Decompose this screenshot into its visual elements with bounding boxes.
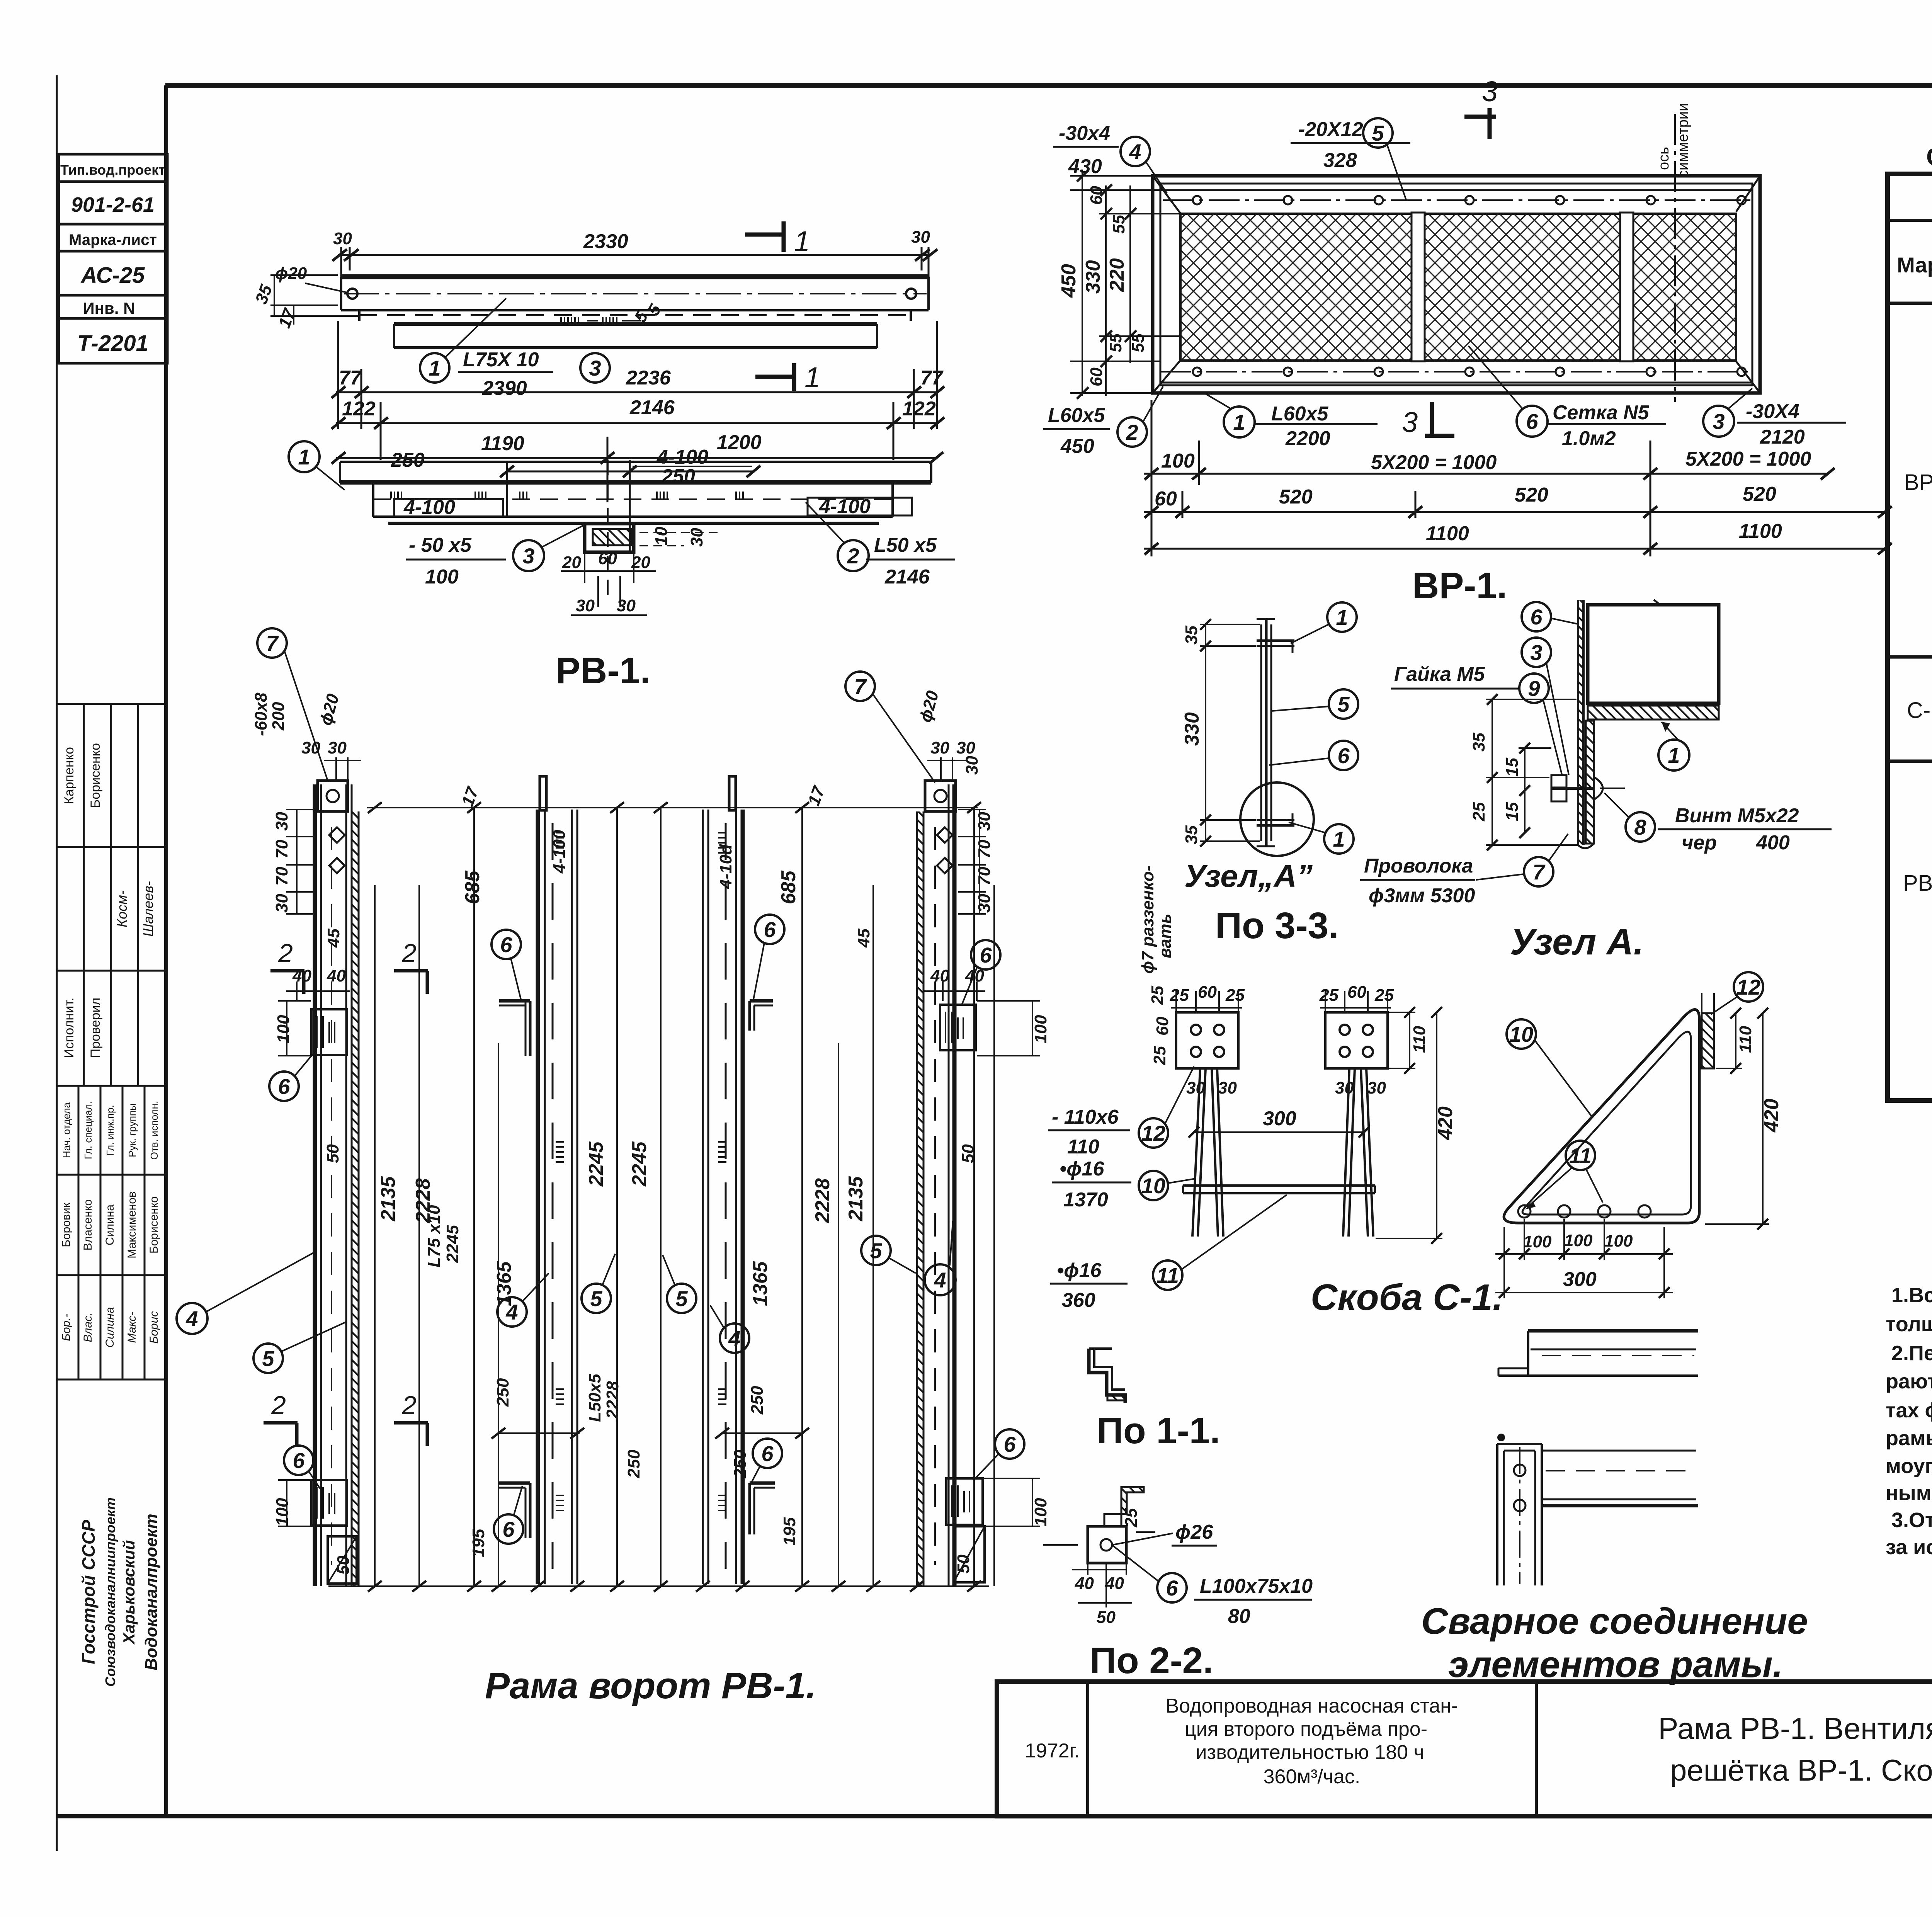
- svg-text:6: 6: [293, 1448, 305, 1473]
- section По 2-2 icon: [1088, 1487, 1144, 1563]
- svg-text:2: 2: [278, 939, 293, 968]
- svg-text:Косм-: Косм-: [114, 890, 130, 927]
- dim row 77 / 2236 / 77: [332, 321, 944, 429]
- ВР-1 dim row 60 / 520 520 520: [1144, 491, 1892, 518]
- svg-text:4: 4: [505, 1300, 518, 1324]
- svg-text:30: 30: [1186, 1078, 1205, 1097]
- M2 mid angle bracket: [499, 1001, 530, 1056]
- svg-text:6: 6: [278, 1074, 290, 1099]
- svg-text:Влас.: Влас.: [82, 1313, 94, 1342]
- svg-text:685: 685: [461, 870, 484, 904]
- svg-text:685: 685: [777, 870, 800, 904]
- svg-text:122: 122: [342, 398, 376, 420]
- svg-text:6: 6: [1530, 605, 1543, 629]
- svg-text:Борисенко: Борисенко: [148, 1196, 160, 1254]
- svg-text:1: 1: [804, 361, 820, 393]
- svg-text:ϕ20: ϕ20: [275, 264, 307, 283]
- svg-text:50: 50: [954, 1555, 973, 1573]
- svg-text:30: 30: [1218, 1078, 1237, 1097]
- svg-text:25: 25: [1170, 986, 1189, 1005]
- svg-text:100: 100: [1161, 450, 1195, 472]
- svg-text:520: 520: [1515, 484, 1548, 506]
- svg-text:420: 420: [1760, 1099, 1783, 1133]
- weld tick clusters lower band: [391, 492, 743, 498]
- member M3: [703, 776, 743, 1584]
- svg-text:Водоканалпроект: Водоканалпроект: [142, 1514, 161, 1670]
- svg-text:Власенко: Власенко: [82, 1199, 94, 1251]
- svg-text:20: 20: [562, 553, 581, 572]
- svg-text:Винт М5х22: Винт М5х22: [1675, 805, 1799, 827]
- svg-text:за исключением оговоренных: за исключением оговоренных особо.: [1886, 1536, 1932, 1559]
- svg-text:520: 520: [1279, 486, 1313, 508]
- svg-text:По 1-1.: По 1-1.: [1097, 1410, 1220, 1451]
- По 3-3 callouts 1,5,6,1: [1327, 602, 1357, 632]
- svg-text:2245: 2245: [443, 1225, 462, 1263]
- svg-text:ϕ7 раззенко-: ϕ7 раззенко-: [1138, 866, 1157, 974]
- 4-100 boxes: [394, 499, 503, 517]
- svg-text:5: 5: [590, 1286, 602, 1311]
- svg-text:30: 30: [687, 528, 706, 547]
- svg-text:1: 1: [429, 356, 440, 380]
- svg-text:25: 25: [1469, 802, 1488, 822]
- svg-text:вать: вать: [1156, 913, 1175, 958]
- svg-text:Силина: Силина: [104, 1204, 116, 1245]
- svg-text:-30x4: -30x4: [1059, 122, 1110, 145]
- svg-text:1190: 1190: [481, 432, 524, 455]
- svg-text:10: 10: [652, 527, 671, 546]
- svg-text:30: 30: [328, 738, 347, 757]
- svg-text:77: 77: [920, 367, 944, 389]
- weld tick rows on top band: [561, 317, 641, 325]
- svg-text:6: 6: [1003, 1432, 1016, 1456]
- ВР-1 dim row 100 / 5x200=1000: [1144, 400, 1835, 556]
- Скоба С-1 front view: right plate: [1325, 1012, 1388, 1068]
- member M4: [917, 784, 954, 1586]
- M4 mid weld plate: [940, 1005, 976, 1050]
- svg-text:30: 30: [576, 596, 595, 615]
- M4 bolt diamonds: [937, 827, 952, 843]
- svg-text:решётка ВР-1. Скоба С-1.: решётка ВР-1. Скоба С-1.: [1670, 1753, 1932, 1787]
- svg-text:2: 2: [1126, 420, 1138, 444]
- svg-text:-30X4: -30X4: [1746, 400, 1799, 423]
- svg-text:195: 195: [469, 1529, 488, 1557]
- svg-text:Проверил: Проверил: [88, 998, 103, 1058]
- svg-text:моугольности рамы, привар: моугольности рамы, приваривают друг к др…: [1886, 1454, 1932, 1478]
- svg-text:330: 330: [1181, 712, 1203, 746]
- svg-text:2: 2: [401, 939, 417, 968]
- svg-text:60: 60: [1153, 1017, 1172, 1036]
- svg-text:Тип.вод.проект: Тип.вод.проект: [60, 162, 165, 178]
- svg-text:-60x8: -60x8: [252, 692, 270, 736]
- callout 2: L50x5/2146: [838, 540, 869, 571]
- svg-text:Марка: Марка: [1897, 253, 1932, 277]
- svg-text:220: 220: [1106, 258, 1128, 292]
- svg-text:30: 30: [1335, 1078, 1354, 1097]
- M1 bottom plate: [311, 1480, 347, 1526]
- top rail with bolts: [1160, 190, 1752, 204]
- По 2-2 dims: [1043, 1532, 1173, 1607]
- svg-text:25: 25: [1122, 1508, 1141, 1527]
- small dim hardware lines top-left/top-right: [278, 757, 1040, 1526]
- M1 top plate -60x8: [318, 781, 348, 811]
- bottom rail with bolts: [1160, 367, 1752, 383]
- M4 bottom plate: [946, 1478, 983, 1525]
- svg-text:- 110x6: - 110x6: [1052, 1106, 1119, 1128]
- svg-text:L75X 10: L75X 10: [463, 349, 539, 371]
- svg-text:77: 77: [339, 367, 362, 389]
- member M2: [538, 776, 577, 1584]
- svg-text:122: 122: [902, 398, 936, 420]
- svg-text:Инв. N: Инв. N: [83, 299, 135, 317]
- svg-text:80: 80: [1228, 1605, 1250, 1628]
- svg-text:1365: 1365: [749, 1261, 772, 1306]
- svg-text:6: 6: [500, 932, 512, 957]
- svg-text:330: 330: [1082, 260, 1104, 294]
- table header texts: [1897, 189, 1932, 297]
- mid dim lines 250: [492, 1428, 809, 1439]
- stamp: middle signature block: [57, 704, 166, 1379]
- svg-text:Исполнит.: Исполнит.: [62, 998, 77, 1058]
- svg-text:4-100: 4-100: [403, 496, 455, 519]
- svg-text:70: 70: [272, 867, 291, 886]
- svg-text:450: 450: [1060, 435, 1094, 458]
- svg-text:1200: 1200: [717, 431, 762, 454]
- svg-text:5: 5: [675, 1286, 688, 1311]
- Скоба С-1 dims above plates 25 60 25: [1171, 991, 1391, 1012]
- svg-text:L100x75x10: L100x75x10: [1200, 1575, 1313, 1597]
- svg-text:70: 70: [272, 840, 291, 859]
- svg-text:3: 3: [522, 544, 534, 568]
- svg-text:250: 250: [624, 1449, 643, 1478]
- РВ-1 top beam band: [341, 277, 929, 321]
- Скоба С-1 front view: left plate: [1176, 1012, 1238, 1068]
- drawing РВ-1 plan: top dim line 2330: [332, 247, 937, 284]
- svg-text:3: 3: [1482, 75, 1498, 107]
- svg-text:Силина: Силина: [104, 1307, 116, 1347]
- mesh divider bars: [1412, 213, 1425, 361]
- svg-text:250: 250: [391, 449, 425, 471]
- РВ-1 inner channel (L75x10): [394, 324, 877, 348]
- svg-text:25: 25: [1150, 1046, 1169, 1065]
- svg-text:ϕ26: ϕ26: [1175, 1521, 1213, 1543]
- svg-text:1370: 1370: [1063, 1189, 1108, 1211]
- svg-text:6: 6: [502, 1517, 515, 1541]
- bottom dim line: [328, 1581, 989, 1592]
- svg-text:Борисенко: Борисенко: [88, 743, 103, 808]
- svg-text:35: 35: [1469, 733, 1488, 752]
- Рама ворот РВ-1: left member M1: [315, 784, 359, 1586]
- svg-text:9: 9: [1528, 676, 1540, 701]
- svg-text:L75 x10: L75 x10: [425, 1205, 444, 1267]
- svg-text:25: 25: [1148, 986, 1167, 1005]
- svg-text:2245: 2245: [585, 1141, 607, 1187]
- svg-text:2200: 2200: [1285, 427, 1330, 450]
- svg-text:40: 40: [1105, 1574, 1124, 1593]
- svg-text:ВР-1: ВР-1: [1904, 470, 1932, 495]
- svg-text:6: 6: [761, 1441, 774, 1466]
- Узел А: beam and frame corner: [1578, 600, 1719, 848]
- svg-text:2146: 2146: [629, 396, 675, 419]
- svg-text:АС-25: АС-25: [80, 263, 145, 288]
- svg-text:РВ-1: РВ-1: [1903, 871, 1932, 896]
- svg-text:1100: 1100: [1739, 520, 1782, 543]
- svg-text:200: 200: [269, 702, 288, 731]
- svg-text:Рук. группы: Рук. группы: [126, 1103, 138, 1157]
- M1 bolt diamonds: [329, 827, 345, 843]
- svg-text:4: 4: [728, 1326, 740, 1351]
- svg-text:15: 15: [1503, 758, 1522, 777]
- svg-text:тах ϕ18 мм, временно ра: тах ϕ18 мм, временно раскрепляют в нижне…: [1886, 1399, 1932, 1422]
- svg-text:40: 40: [327, 966, 346, 985]
- svg-text:520: 520: [1743, 483, 1776, 505]
- svg-text:100: 100: [1031, 1498, 1050, 1526]
- svg-text:60: 60: [1347, 983, 1366, 1002]
- svg-text:1972г.: 1972г.: [1025, 1740, 1080, 1762]
- section По 1-1 angle icon: [1089, 1349, 1125, 1403]
- svg-text:2: 2: [401, 1391, 417, 1420]
- svg-text:ось: ось: [1656, 147, 1672, 170]
- svg-text:50: 50: [959, 1144, 978, 1163]
- svg-text:1: 1: [298, 445, 310, 469]
- title block grid: [997, 1682, 1932, 1816]
- svg-text:изводительностью 180 ч: изводительностью 180 ч: [1196, 1741, 1424, 1764]
- svg-text:1: 1: [1233, 410, 1245, 434]
- svg-text:ВР-1.: ВР-1.: [1412, 565, 1507, 606]
- svg-text:901-2-61: 901-2-61: [71, 193, 155, 216]
- svg-text:55: 55: [1109, 215, 1128, 234]
- Скоба С-1 front view: bottom rod: [1183, 1186, 1375, 1193]
- svg-text:60: 60: [1087, 367, 1106, 386]
- triangle plate strip (pos 12): [1702, 1013, 1714, 1068]
- svg-text:Сетка N5: Сетка N5: [1553, 401, 1650, 424]
- svg-text:4-100: 4-100: [550, 830, 569, 874]
- callout 1: L75x10/2390: [420, 298, 553, 383]
- svg-text:12: 12: [1141, 1121, 1165, 1145]
- weld joint detail: corner post and beam: [1497, 1434, 1698, 1585]
- svg-text:360м³/час.: 360м³/час.: [1264, 1766, 1361, 1788]
- svg-text:1100: 1100: [1426, 522, 1469, 545]
- M3 bottom angle bracket: [750, 1483, 775, 1534]
- svg-text:ными швами.: ными швами.: [1886, 1482, 1932, 1505]
- M2 bottom angle bracket: [499, 1483, 530, 1538]
- svg-text:110: 110: [1736, 1026, 1755, 1053]
- triangle dims 110 / 420: [1702, 993, 1769, 1230]
- ВР-1 left dims 450/330/220: [1070, 170, 1182, 399]
- svg-text:70: 70: [975, 840, 994, 859]
- svg-text:100: 100: [273, 1498, 292, 1526]
- section marks 2: [264, 939, 428, 1446]
- svg-text:450: 450: [1058, 264, 1080, 298]
- Узел А dims: [1486, 694, 1578, 850]
- callout 1: L60x5/2200: [1224, 407, 1255, 437]
- svg-text:45: 45: [854, 929, 873, 948]
- svg-text:симметрии: симметрии: [1675, 103, 1691, 178]
- svg-text:4-100: 4-100: [819, 495, 871, 518]
- dim row 250 / 4-100 / 250: [500, 460, 760, 552]
- svg-text:25: 25: [1374, 986, 1394, 1005]
- svg-text:400: 400: [1756, 832, 1790, 854]
- ВР-1 grille outer frame: [1153, 176, 1760, 393]
- svg-text:ция второго подъёма про-: ция второго подъёма про-: [1185, 1718, 1427, 1740]
- svg-text:15: 15: [1503, 802, 1522, 821]
- svg-text:328: 328: [1323, 149, 1357, 172]
- svg-text:4: 4: [185, 1306, 198, 1331]
- triangle bottom dims 100 100 100 / 300: [1495, 1219, 1673, 1298]
- svg-text:Узел„А”: Узел„А”: [1184, 859, 1313, 894]
- stamp: organization block rotated text: [78, 1497, 161, 1687]
- svg-text:5X200 = 1000: 5X200 = 1000: [1685, 448, 1811, 470]
- svg-text:250: 250: [731, 1449, 750, 1478]
- svg-text:250: 250: [748, 1386, 767, 1415]
- svg-text:Госстрой СССР: Госстрой СССР: [78, 1520, 99, 1664]
- svg-text:30: 30: [963, 756, 981, 775]
- svg-text:Борис: Борис: [148, 1311, 160, 1344]
- svg-text:1: 1: [1668, 743, 1680, 767]
- svg-text:1.0м2: 1.0м2: [1562, 427, 1616, 450]
- svg-text:11: 11: [1569, 1143, 1592, 1168]
- svg-text:30: 30: [272, 812, 291, 831]
- section По 3-3 detail: [1257, 618, 1294, 846]
- section mark 1 (top): [745, 221, 784, 252]
- svg-text:6: 6: [764, 917, 776, 942]
- svg-text:50: 50: [1097, 1608, 1116, 1627]
- svg-text:Бор.-: Бор.-: [60, 1313, 73, 1341]
- svg-text:3.Отверстия сверлёные. Диа: 3.Отверстия сверлёные. Диаметр отверстий…: [1891, 1509, 1932, 1532]
- svg-text:55: 55: [1129, 333, 1148, 352]
- svg-text:2330: 2330: [583, 230, 628, 253]
- svg-text:300: 300: [1563, 1268, 1597, 1291]
- svg-text:Максименов: Максименов: [126, 1191, 138, 1259]
- svg-text:1: 1: [794, 225, 810, 257]
- svg-text:С-1: С-1: [1907, 698, 1932, 723]
- svg-text:Рама РВ-1. Вентиляционная: Рама РВ-1. Вентиляционная: [1658, 1711, 1932, 1745]
- svg-text:2135: 2135: [377, 1176, 400, 1221]
- svg-text:РВ-1.: РВ-1.: [556, 650, 650, 691]
- svg-text:Нач. отдела: Нач. отдела: [61, 1102, 72, 1158]
- specification table grid: [1888, 174, 1932, 1101]
- dim row 122 / 2146 / 122: [332, 402, 944, 460]
- svg-text:- 50 x5: - 50 x5: [409, 534, 472, 556]
- svg-text:60: 60: [598, 549, 617, 568]
- svg-text:30: 30: [272, 894, 291, 913]
- svg-text:3: 3: [1713, 409, 1725, 434]
- svg-text:110: 110: [1067, 1136, 1099, 1158]
- section mark 3 (bottom): [1425, 402, 1454, 436]
- svg-text:7: 7: [854, 674, 867, 699]
- svg-text:Рама ворот РВ-1.: Рама ворот РВ-1.: [485, 1665, 816, 1706]
- ВР-1 mesh panel: [1180, 214, 1736, 361]
- svg-text:L50 x5: L50 x5: [874, 534, 937, 556]
- M1 mid weld plate: [311, 1009, 347, 1055]
- svg-text:L50x5: L50x5: [585, 1374, 604, 1422]
- svg-text:1: 1: [1333, 827, 1345, 851]
- center tab detail: [585, 524, 634, 552]
- svg-text:2: 2: [847, 544, 859, 568]
- svg-text:чер: чер: [1682, 832, 1717, 854]
- svg-text:Союзводоканалниипроект: Союзводоканалниипроект: [102, 1497, 118, 1687]
- svg-text:Шалеев-: Шалеев-: [140, 881, 156, 937]
- svg-text:2390: 2390: [482, 377, 527, 400]
- svg-text:30: 30: [911, 228, 930, 247]
- svg-text:2245: 2245: [628, 1141, 651, 1187]
- M4 top plate: [925, 781, 956, 811]
- svg-text:40: 40: [1075, 1574, 1094, 1593]
- svg-text:2: 2: [271, 1391, 286, 1420]
- svg-text:35: 35: [1182, 626, 1201, 645]
- svg-text:ϕ3мм 5300: ϕ3мм 5300: [1369, 885, 1475, 907]
- callout 1 (left): [289, 441, 320, 472]
- svg-text:100: 100: [1564, 1231, 1593, 1250]
- big drawing rotated labels: [252, 689, 1050, 1575]
- section mark 1 (mid): [755, 363, 794, 391]
- weld tick clusters M2/M3: [556, 833, 726, 1510]
- svg-text:4: 4: [934, 1268, 946, 1292]
- svg-text:50: 50: [334, 1556, 353, 1575]
- svg-text:8: 8: [1634, 815, 1646, 839]
- svg-text:2120: 2120: [1760, 426, 1805, 448]
- svg-text:10: 10: [1141, 1174, 1165, 1198]
- ВР-1 dim row 1100 1100: [1144, 543, 1892, 555]
- svg-text:195: 195: [780, 1517, 799, 1546]
- svg-text:Харьковский: Харьковский: [120, 1540, 138, 1645]
- svg-text:Узел А.: Узел А.: [1510, 921, 1644, 963]
- svg-text:3: 3: [589, 356, 601, 380]
- stamp: top-left marka boxes: [59, 154, 167, 363]
- svg-text:50: 50: [323, 1144, 342, 1163]
- svg-text:5X200 = 1000: 5X200 = 1000: [1371, 451, 1497, 474]
- svg-text:2.Перед установкой рамы в п: 2.Перед установкой рамы в проём элементы…: [1891, 1342, 1932, 1365]
- svg-text:Гл. инж.пр.: Гл. инж.пр.: [104, 1105, 116, 1156]
- svg-text:1.Все необозначенные на чер: 1.Все необозначенные на чертеже сварные …: [1891, 1284, 1932, 1307]
- По 3-3 dims 35/330/35: [1200, 619, 1260, 847]
- svg-text:Марка-лист: Марка-лист: [69, 231, 157, 248]
- sheet left trim line: [56, 75, 58, 1851]
- svg-text:6: 6: [1526, 409, 1538, 434]
- big drawing callout circles: [177, 628, 1024, 1544]
- svg-text:5: 5: [1337, 692, 1350, 716]
- svg-text:55: 55: [1106, 333, 1125, 352]
- svg-text:30: 30: [956, 738, 975, 757]
- svg-text:толщиной h= 4мм для ВР- 1 и: толщиной h= 4мм для ВР- 1 и h= 6мм для Р…: [1886, 1313, 1932, 1336]
- Скоба С-1 front view: rod legs: [1192, 1068, 1373, 1237]
- svg-text:L60x5: L60x5: [1271, 403, 1329, 425]
- svg-text:Отв. исполн.: Отв. исполн.: [148, 1101, 160, 1160]
- svg-text:2228: 2228: [811, 1178, 834, 1223]
- M3 mid angle bracket: [750, 1001, 773, 1031]
- svg-text:25: 25: [1225, 986, 1245, 1005]
- svg-text:7: 7: [266, 631, 279, 655]
- dim 300 under bottom rod: [1189, 1127, 1369, 1138]
- svg-text:Проволока: Проволока: [1364, 855, 1473, 877]
- svg-text:2236: 2236: [626, 367, 671, 389]
- svg-text:10: 10: [1509, 1022, 1533, 1046]
- svg-text:60: 60: [1155, 488, 1177, 510]
- top dim line: [367, 802, 981, 813]
- axis of symmetry line: [1674, 114, 1676, 402]
- svg-text:•ϕ16: •ϕ16: [1060, 1158, 1105, 1180]
- svg-text:4-10d: 4-10d: [716, 844, 735, 889]
- svg-text:рамы и после проверки п: рамы и после проверки правильности разме…: [1886, 1427, 1932, 1450]
- svg-text:2146: 2146: [884, 566, 930, 588]
- callout 6: L100x75x10/80: [1157, 1573, 1187, 1602]
- РВ-1 bottom chord band: [340, 462, 931, 523]
- dims right of plates 110 / 420: [1376, 1007, 1442, 1244]
- svg-text:30: 30: [975, 894, 994, 913]
- callout 3: -30x4/2120: [1703, 406, 1734, 437]
- svg-text:3: 3: [1530, 640, 1542, 665]
- svg-text:Сварное соединение: Сварное соединение: [1421, 1601, 1808, 1642]
- svg-text:•ϕ16: •ϕ16: [1057, 1259, 1102, 1282]
